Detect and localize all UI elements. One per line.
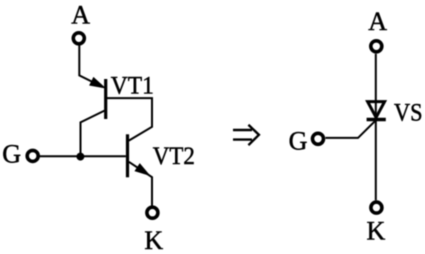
node label G (left gate)	[2, 140, 21, 169]
junction dot (gate node)	[76, 153, 84, 161]
terminal K (left)	[147, 207, 158, 218]
terminal A (left)	[73, 33, 84, 44]
terminal G (right)	[313, 133, 324, 144]
svg-text:K: K	[367, 216, 386, 245]
terminal K (right)	[371, 202, 382, 213]
wire G to VT2 base	[40, 155, 126, 157]
wire VT1 collector to gate node	[81, 111, 105, 157]
node label G (right gate)	[289, 127, 308, 156]
label VS	[394, 99, 423, 126]
gate wire (right)	[326, 121, 375, 138]
node label A (left anode)	[71, 0, 90, 29]
svg-text:G: G	[2, 140, 21, 169]
node label K (left cathode)	[144, 226, 163, 254]
wire A to thyristor anode	[375, 54, 377, 120]
wire A to VT1 emitter	[79, 46, 102, 87]
svg-text:VT2: VT2	[153, 143, 195, 170]
label VT2	[153, 143, 195, 170]
svg-text:VT1: VT1	[111, 72, 154, 99]
svg-text:K: K	[144, 226, 163, 254]
transistor VT1 bar (PNP body)	[104, 79, 107, 119]
svg-text:VS: VS	[394, 99, 423, 126]
label VT1	[111, 72, 154, 99]
svg-text:A: A	[368, 7, 387, 36]
node label K (right cathode)	[367, 216, 386, 245]
equivalence arrow (double arrow)	[233, 125, 259, 145]
terminal G (left)	[27, 150, 38, 161]
wire VT1 base to VT2 collector	[107, 98, 152, 141]
thyristor VS (triangle + cathode bar)	[367, 102, 386, 120]
transistor VT2 bar (NPN body)	[126, 134, 129, 177]
VT2 emitter wire with arrow to K	[129, 162, 152, 206]
wire thyristor cathode to K	[375, 120, 377, 201]
svg-text:G: G	[289, 127, 308, 156]
terminal A (right)	[371, 41, 382, 52]
svg-text:A: A	[71, 0, 90, 29]
node label A (right anode)	[368, 7, 387, 36]
emitter arrow of VT1 (PNP, pointing into bar)	[90, 78, 104, 88]
